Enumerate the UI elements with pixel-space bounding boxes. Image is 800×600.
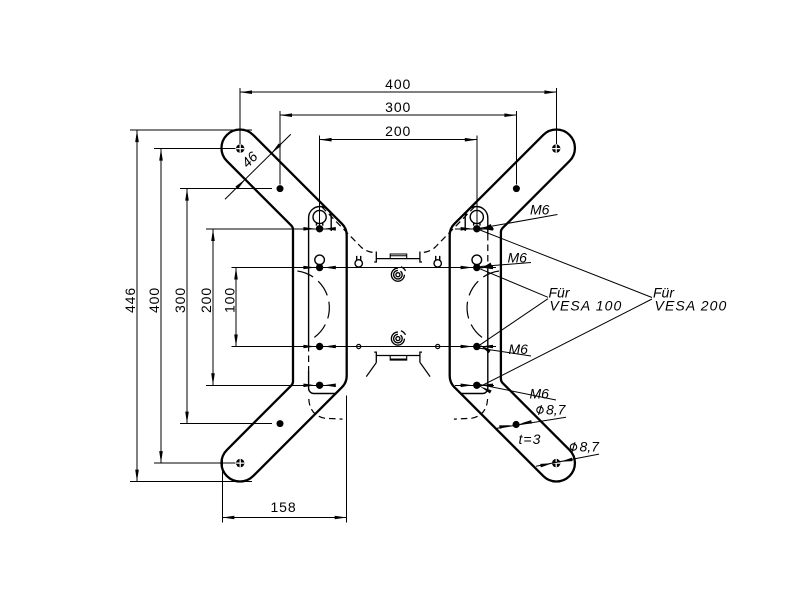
- svg-text:M6: M6: [509, 341, 529, 357]
- svg-text:158: 158: [270, 499, 296, 515]
- dia2 arrows at hole (556.4,462.5), dir -11deg: [540, 462, 552, 468]
- extension line 300 top hole: [180, 188, 272, 190]
- svg-text:300: 300: [385, 99, 411, 115]
- svg-text:8,7: 8,7: [546, 402, 567, 418]
- svg-text:M6: M6: [508, 250, 528, 266]
- row line VESA200 bottom right: [455, 384, 494, 386]
- extension line 400 top hole: [154, 148, 236, 150]
- svg-text:VESA 100: VESA 100: [550, 298, 623, 314]
- keyhole slot row1: [313, 210, 326, 223]
- svg-text:M6: M6: [530, 386, 550, 402]
- spiral top: [391, 267, 405, 281]
- tab around top keyhole: [309, 207, 332, 234]
- extension line 400 bottom hole: [154, 462, 236, 464]
- M6 #3: [475, 348, 531, 357]
- svg-text:446: 446: [122, 287, 138, 313]
- dimension line 100 left: [235, 268, 237, 347]
- top hat: [374, 252, 422, 263]
- row line VESA100 top: [232, 267, 496, 269]
- VESA leader arrow tips: [480, 263, 492, 271]
- svg-text:200: 200: [198, 287, 214, 313]
- svg-text:M6: M6: [530, 202, 550, 218]
- row line VESA200 top left: [206, 228, 331, 230]
- keyhole slot row2: [315, 255, 325, 265]
- dimension line 400 top: [240, 91, 556, 93]
- converging arrow pairs at bar dots: [303, 227, 335, 387]
- plate long edges: left solid w/ lower dash, right solid w/ upper dash: [309, 234, 488, 371]
- dimension line 300 left: [186, 189, 188, 424]
- plate left edge bottom corner: [309, 371, 336, 394]
- top hidden curve to hat: [322, 207, 377, 253]
- row line VESA200 top right: [455, 228, 494, 230]
- svg-text:300: 300: [172, 287, 188, 313]
- mid small circle bottom: [357, 344, 361, 348]
- VESA100 leaders: [480, 269, 548, 297]
- svg-text:400: 400: [385, 76, 411, 92]
- svg-text:100: 100: [221, 287, 237, 313]
- thin extension lines (vertical): [240, 88, 320, 225]
- svg-text:200: 200: [385, 123, 411, 139]
- extension line 446 bottom: [130, 481, 252, 483]
- spiral bottom: [391, 331, 405, 345]
- dia 8.7 #1 leader: [497, 417, 566, 428]
- bracket silhouette right half: arms + bar: [450, 129, 575, 481]
- bottom hat: [374, 352, 422, 363]
- svg-text:VESA 200: VESA 200: [655, 298, 728, 314]
- M6 #2: [480, 263, 531, 267]
- filled screw dots on bar: [277, 185, 324, 389]
- dimension line 300 top: [280, 114, 516, 116]
- extension line 158 left: [221, 458, 223, 522]
- row line VESA100 bottom: [232, 346, 496, 348]
- dimension line 46 diagonal across arm: [225, 134, 291, 199]
- dimension line 200 left: [212, 229, 214, 385]
- extension line 300 bottom hole: [180, 423, 272, 425]
- dashed hidden lines: [297, 207, 376, 420]
- second arm hole (top): [277, 185, 284, 192]
- end holes with cross: [236, 144, 244, 467]
- diameter symbols (circle + slash): [537, 405, 577, 452]
- row line VESA200 bottom left: [206, 384, 331, 386]
- dimension line 200 top: [320, 139, 477, 141]
- extension line 446 top: [130, 129, 252, 131]
- dimension line 400 left: [160, 149, 162, 464]
- bottom small diagonal from hat flare: [366, 363, 376, 377]
- VESA200 leaders: [480, 230, 652, 297]
- bar hidden arc: [297, 271, 329, 341]
- extension line 158 right: [346, 396, 348, 523]
- dim arrowheads: [135, 90, 556, 519]
- 46 dim arrows (outside pointing in), line dir -45deg: [235, 178, 246, 189]
- M6 #1: [480, 215, 558, 229]
- bracket silhouette left half: arms + bar: [221, 129, 346, 481]
- dia 8.7 #2 leader: [536, 454, 599, 466]
- M6 #4: [479, 384, 557, 400]
- dia1 arrows converging at hole (515.5,424.5), dir angle -9.2deg: [499, 423, 511, 428]
- dimension line 158 bottom: [222, 517, 346, 519]
- dimension line 446 left: [136, 130, 138, 482]
- svg-text:8,7: 8,7: [580, 439, 601, 455]
- bottom hidden hook: [309, 399, 343, 419]
- svg-text:400: 400: [146, 287, 162, 313]
- svg-text:t=3: t=3: [519, 431, 542, 447]
- mid keyhole top (open-top tube): [357, 256, 361, 260]
- bottom-left filled: [277, 420, 284, 427]
- second arm hole bottom-right (8,7 dia): [513, 421, 520, 428]
